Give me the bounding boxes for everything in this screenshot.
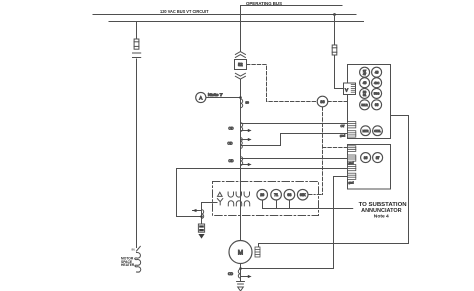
svg-text:OPERATING BUS: OPERATING BUS bbox=[246, 1, 282, 6]
svg-text:TO SUBSTATION: TO SUBSTATION bbox=[359, 202, 407, 208]
svg-text:46: 46 bbox=[375, 70, 379, 74]
svg-text:86: 86 bbox=[320, 100, 324, 104]
svg-text:66: 66 bbox=[375, 103, 379, 107]
svg-text:49: 49 bbox=[363, 81, 367, 85]
svg-text:gnd: gnd bbox=[349, 181, 354, 185]
svg-text:80: 80 bbox=[246, 100, 250, 104]
svg-text:49C: 49C bbox=[374, 81, 379, 85]
svg-text:CD: CD bbox=[229, 127, 234, 131]
svg-text:52: 52 bbox=[238, 62, 243, 67]
svg-text:ANNUNCIATOR: ANNUNCIATOR bbox=[361, 208, 402, 214]
svg-text:Note 7: Note 7 bbox=[208, 93, 223, 97]
svg-text:87: 87 bbox=[376, 156, 380, 160]
svg-text:63X: 63X bbox=[300, 193, 307, 197]
svg-text:CD: CD bbox=[228, 272, 233, 276]
svg-text:86: 86 bbox=[132, 248, 136, 252]
svg-text:Note 4: Note 4 bbox=[374, 214, 389, 220]
svg-text:63: 63 bbox=[287, 193, 291, 197]
svg-text:120 VAC BUS VT CIRCUIT: 120 VAC BUS VT CIRCUIT bbox=[160, 9, 209, 14]
svg-text:MTR: MTR bbox=[363, 129, 369, 133]
svg-text:26: 26 bbox=[260, 193, 264, 197]
svg-text:51: 51 bbox=[363, 93, 367, 97]
svg-text:A: A bbox=[199, 95, 203, 100]
svg-text:HEATER: HEATER bbox=[121, 263, 135, 267]
svg-text:86: 86 bbox=[364, 156, 368, 160]
svg-text:71: 71 bbox=[274, 193, 278, 197]
svg-text:50G: 50G bbox=[374, 92, 380, 96]
svg-text:gnd: gnd bbox=[340, 133, 345, 137]
svg-text:M: M bbox=[238, 249, 243, 256]
svg-text:CT: CT bbox=[341, 124, 345, 128]
svg-text:CTRL: CTRL bbox=[374, 130, 381, 133]
svg-text:gnd: gnd bbox=[349, 161, 354, 165]
svg-text:CD: CD bbox=[228, 142, 233, 146]
svg-text:CD: CD bbox=[229, 159, 234, 163]
svg-text:50LR: 50LR bbox=[361, 103, 367, 107]
svg-text:47: 47 bbox=[363, 72, 367, 76]
